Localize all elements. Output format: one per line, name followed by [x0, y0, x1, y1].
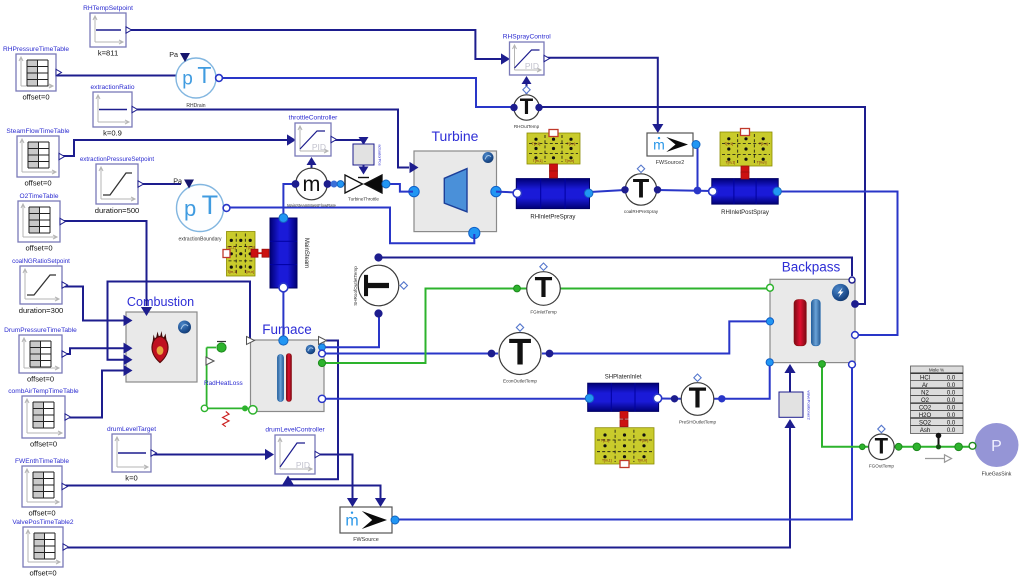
- flow direction arrow: [925, 455, 952, 462]
- svg-text:combAirTempTimeTable: combAirTempTimeTable: [8, 388, 79, 395]
- pipe RHInletPreSpray: [516, 179, 589, 221]
- wire Furnace to SHPlatenInlet: [322, 398, 587, 400]
- svg-text:Mole %: Mole %: [929, 368, 944, 373]
- wire Furnace to SHRoofOutletTemp: [322, 314, 379, 347]
- pressure-temperature boundary extractionBoundary: [173, 177, 230, 243]
- svg-text:0.0: 0.0: [947, 376, 956, 382]
- combustion block Combustion: [126, 295, 197, 382]
- svg-text:T[1,1]: T[1,1]: [601, 439, 610, 443]
- svg-text:T: T: [689, 382, 707, 414]
- svg-text:k=0.9: k=0.9: [103, 129, 122, 138]
- svg-text:T[m,1]: T[m,1]: [726, 161, 736, 165]
- wire RHDrain to RHOutTemp: [217, 78, 514, 107]
- wire coalRHPreSpray sensor to RHInletPostSpray: [657, 190, 712, 191]
- svg-text:MainSteam: MainSteam: [303, 238, 309, 268]
- time table O2TimeTable: [18, 193, 66, 253]
- svg-text:TurbineThrottle: TurbineThrottle: [348, 197, 379, 202]
- red heat link RHInletPreSprayWall: [550, 164, 558, 178]
- pressure-temperature boundary RHDrain: [169, 50, 222, 109]
- svg-text:Furnace: Furnace: [262, 322, 312, 337]
- svg-text:Turbine: Turbine: [432, 128, 479, 144]
- time table combAirTempTimeTable: [8, 388, 79, 449]
- wire SHRoofOutletTemp signal to Backpass top: [379, 258, 853, 277]
- wire combAirTempTimeTable to Combustion: [65, 371, 124, 418]
- svg-text:Pa: Pa: [173, 177, 182, 186]
- temperature sensor FGInletTemp: [527, 263, 561, 314]
- svg-text:Ash: Ash: [920, 428, 930, 434]
- wire MainSteam to MainSteamMassFlowRate: [283, 184, 295, 217]
- svg-text:offset=0: offset=0: [29, 569, 56, 578]
- svg-text:0.0: 0.0: [947, 420, 956, 426]
- svg-text:PreSHOutletTemp: PreSHOutletTemp: [679, 419, 716, 424]
- svg-text:T: T: [520, 94, 534, 119]
- svg-text:DrumPressureTimeTable: DrumPressureTimeTable: [4, 327, 77, 334]
- wire RHPressureTimeTable to RHDrain: [56, 75, 177, 77]
- red heat link RHInletPostSprayWall: [741, 166, 749, 179]
- wire RHTempSetpoint to RHSprayControl: [126, 30, 503, 59]
- sensor FGOutTemp ports: [860, 443, 963, 451]
- svg-text:valvePositioner2: valvePositioner2: [807, 390, 812, 420]
- valve positioner valvePositioner2: [779, 390, 812, 420]
- pipe RHInletPostSpray ports: [709, 187, 782, 195]
- ramp block coalNGRatioSetpoint: [12, 258, 70, 315]
- constant block RHTempSetpoint: [83, 5, 133, 58]
- svg-text:FWSource: FWSource: [353, 537, 378, 543]
- wire RHSprayControl to FWSource2: [544, 58, 658, 126]
- wire throttle actuator to TurbineThrottle: [363, 165, 365, 167]
- wire Furnace to EconOutletTemp: [322, 353, 498, 355]
- PID controller throttleController: [289, 115, 339, 157]
- sensor RHOutTemp ports: [511, 104, 542, 110]
- svg-text:FlueGasSink: FlueGasSink: [982, 472, 1012, 478]
- red heat link MainSteamWall to MainSteam: [251, 249, 269, 257]
- svg-text:RadHeatLoss: RadHeatLoss: [204, 380, 243, 387]
- wire PreSHOutletTemp to Backpass bottom: [714, 363, 770, 399]
- svg-text:SO2: SO2: [919, 420, 932, 426]
- svg-text:m: m: [345, 513, 358, 530]
- svg-text:T[m,n]: T[m,n]: [244, 270, 254, 274]
- svg-text:k=811: k=811: [98, 49, 118, 58]
- svg-text:RHDrain: RHDrain: [186, 103, 205, 109]
- time table SteamFlowTimeTable: [6, 128, 69, 188]
- svg-text:MainSteamMassFlowRate: MainSteamMassFlowRate: [287, 203, 337, 208]
- wire TurbineThrottle to Turbine: [386, 184, 414, 192]
- svg-text:coalRHPreSpray: coalRHPreSpray: [624, 209, 659, 214]
- wire extractionBoundary to Turbine bottom: [224, 208, 474, 244]
- sink FlueGasSink: [969, 423, 1018, 478]
- svg-text:CO2: CO2: [919, 406, 932, 412]
- wire MainSteamMassFlowRate to throttleController: [311, 161, 313, 168]
- svg-text:SHPlatenInlet: SHPlatenInlet: [605, 374, 642, 380]
- heated wall SHPlatenInletWall: [595, 428, 654, 468]
- wire ValvePosTimeTable2 to valvePositioner2: [64, 426, 790, 548]
- svg-text:extractionPressureSetpoint: extractionPressureSetpoint: [80, 156, 155, 163]
- wire FWSource to Backpass economizer: [396, 364, 852, 520]
- svg-text:offset=0: offset=0: [22, 93, 49, 102]
- svg-text:ValvePosTimeTable2: ValvePosTimeTable2: [12, 519, 74, 526]
- wire Furnace output loop to Combustion: [108, 282, 251, 360]
- svg-text:T: T: [633, 174, 650, 204]
- sensor FGInletTemp ports: [514, 285, 521, 292]
- svg-text:drumLevelController: drumLevelController: [265, 427, 325, 434]
- wire RHInletPostSpray to Backpass: [778, 192, 898, 336]
- svg-text:p: p: [182, 69, 193, 90]
- svg-text:T[1,1]: T[1,1]: [532, 142, 541, 146]
- pipe SHPlatenInlet ports: [585, 394, 661, 402]
- red heat link SHPlatenInletWall: [620, 411, 628, 426]
- constant block drumLevelTarget: [107, 426, 157, 483]
- svg-text:p: p: [184, 196, 196, 221]
- svg-text:0.0: 0.0: [947, 383, 956, 389]
- time table ValvePosTimeTable2: [12, 519, 74, 578]
- wire FWEnthTimeTable to FWSource: [62, 486, 381, 500]
- svg-text:HCl: HCl: [920, 376, 930, 382]
- svg-text:Combustion: Combustion: [127, 295, 194, 309]
- svg-text:T: T: [202, 190, 219, 220]
- wire Backpass flue gas to FGOutTemp and FlueGasSink: [822, 364, 974, 447]
- valve TurbineThrottle: [331, 175, 390, 202]
- svg-text:offset=0: offset=0: [24, 179, 51, 188]
- temperature sensor SHRoofOutletTemp: [356, 265, 407, 306]
- temperature sensor EconOutletTemp: [499, 324, 541, 384]
- svg-text:RHOutTemp: RHOutTemp: [514, 124, 540, 129]
- heated wall MainSteamWall: [223, 232, 255, 277]
- wire RHInletPreSpray to coalRHPreSpray sensor: [590, 190, 625, 192]
- time table RHPressureTimeTable: [3, 46, 69, 102]
- svg-text:RHInletPreSpray: RHInletPreSpray: [530, 215, 575, 221]
- svg-text:T[m,n]: T[m,n]: [757, 161, 767, 165]
- svg-text:T[1,n]: T[1,n]: [640, 439, 649, 443]
- throttle actuator block: [353, 144, 383, 166]
- wire EconOutletTemp to Backpass: [542, 321, 769, 353]
- svg-text:extractionBoundary: extractionBoundary: [178, 237, 222, 243]
- svg-text:offset=0: offset=0: [25, 244, 52, 253]
- svg-text:offset=0: offset=0: [28, 509, 55, 518]
- svg-text:T[m,1]: T[m,1]: [227, 270, 237, 274]
- svg-text:T: T: [197, 62, 211, 88]
- mass flow sensor MainSteamMassFlowRate: [287, 168, 337, 208]
- wire O2TimeTable to Combustion top: [61, 221, 147, 306]
- wire DrumPressureTimeTable to Combustion: [63, 348, 124, 354]
- svg-text:RHInletPostSpray: RHInletPostSpray: [721, 210, 769, 216]
- svg-text:O2: O2: [921, 398, 930, 404]
- svg-text:duration=500: duration=500: [95, 206, 140, 215]
- backpass block Backpass: [770, 260, 855, 363]
- heated wall RHInletPostSprayWall: [720, 129, 772, 167]
- svg-text:T[1,n]: T[1,n]: [759, 142, 768, 146]
- svg-text:EconOutletTemp: EconOutletTemp: [503, 379, 537, 384]
- PID controller drumLevelController: [265, 427, 325, 475]
- sensor EconOutletTemp ports: [488, 350, 553, 357]
- svg-text:0.0: 0.0: [947, 398, 956, 404]
- svg-text:RHPressureTimeTable: RHPressureTimeTable: [3, 46, 69, 53]
- svg-text:P: P: [991, 438, 1002, 455]
- svg-text:RHTempSetpoint: RHTempSetpoint: [83, 5, 133, 12]
- PID controller RHSprayControl: [503, 34, 552, 76]
- wire drumLevelTarget to drumLevelController: [152, 454, 267, 456]
- svg-text:PID: PID: [296, 460, 310, 470]
- svg-text:T[1,1]: T[1,1]: [724, 142, 733, 146]
- wire Turbine to RHInletPreSpray: [496, 191, 516, 194]
- svg-text:T[1,1]: T[1,1]: [227, 245, 236, 249]
- svg-text:m: m: [303, 172, 321, 196]
- svg-text:0.0: 0.0: [947, 428, 956, 434]
- temperature sensor FGOutTemp: [869, 425, 895, 468]
- svg-text:T[1,n]: T[1,n]: [567, 142, 576, 146]
- wire drumLevelController to FWSource: [316, 455, 353, 500]
- svg-text:0.0: 0.0: [947, 406, 956, 412]
- heat loss component RadHeatLoss: [201, 342, 248, 427]
- svg-text:0.0: 0.0: [947, 391, 956, 397]
- sensor SHRoofOutletTemp ports: [375, 254, 382, 317]
- mass flow source FWSource: [340, 507, 399, 543]
- svg-text:FGOutTemp: FGOutTemp: [869, 464, 894, 469]
- wire RHOutTemp signal to Backpass right: [539, 107, 865, 304]
- backpass ports: [766, 277, 858, 368]
- wire valvePositioner2 to Backpass: [789, 371, 791, 392]
- ramp block extractionPressureSetpoint: [80, 156, 155, 215]
- sensor coalRHPreSpray ports: [622, 187, 701, 194]
- pipe RHInletPreSpray ports: [513, 189, 593, 197]
- svg-text:N2: N2: [921, 391, 929, 397]
- svg-text:actuatorPos: actuatorPos: [378, 144, 383, 165]
- svg-text:T[m,1]: T[m,1]: [602, 459, 612, 463]
- wire MainSteamMassFlowRate to TurbineThrottle: [327, 183, 345, 185]
- svg-text:0.0: 0.0: [947, 413, 956, 419]
- svg-text:Ar: Ar: [922, 383, 928, 389]
- svg-text:FGInletTemp: FGInletTemp: [530, 309, 557, 314]
- svg-text:T: T: [509, 331, 532, 372]
- wire SHPlatenInlet to PreSHOutletTemp: [659, 398, 681, 400]
- wire extractionRatio to Turbine control input: [132, 110, 409, 168]
- svg-text:offset=0: offset=0: [27, 375, 54, 384]
- pipe SHPlatenInlet: [588, 374, 659, 411]
- wire SteamFlowTimeTable to throttleController: [60, 140, 288, 156]
- temperature sensor RHOutTemp: [514, 86, 540, 129]
- svg-text:throttleController: throttleController: [289, 115, 339, 122]
- svg-text:Pa: Pa: [169, 50, 178, 59]
- svg-text:T[m,n]: T[m,n]: [565, 159, 575, 163]
- wire coalNGRatioSetpoint to Combustion: [62, 287, 124, 321]
- svg-text:SteamFlowTimeTable: SteamFlowTimeTable: [6, 128, 69, 135]
- wire MainSteam to Furnace: [282, 288, 284, 339]
- turbine block Turbine: [409, 128, 501, 239]
- svg-text:k=0: k=0: [125, 474, 137, 483]
- svg-text:duration=300: duration=300: [19, 306, 64, 315]
- temperature sensor PreSHOutletTemp: [679, 374, 716, 424]
- sensor PreSHOutletTemp ports: [671, 396, 725, 402]
- wire Furnace flue gas to FGInletTemp and Backpass: [322, 289, 768, 364]
- time table FWEnthTimeTable: [15, 458, 69, 518]
- wire FWSource2 to RH spray junction: [697, 146, 699, 191]
- svg-text:T: T: [875, 433, 889, 458]
- svg-text:Backpass: Backpass: [782, 260, 841, 275]
- temperature sensor coalRHPreSpray: [624, 165, 659, 214]
- svg-text:extractionRatio: extractionRatio: [91, 84, 135, 91]
- svg-text:FWSource2: FWSource2: [656, 160, 684, 166]
- svg-text:T: T: [356, 275, 397, 297]
- svg-text:T[m,1]: T[m,1]: [533, 159, 543, 163]
- svg-text:coalNGRatioSetpoint: coalNGRatioSetpoint: [12, 258, 70, 265]
- svg-text:drumLevelTarget: drumLevelTarget: [107, 426, 156, 433]
- svg-text:PID: PID: [525, 61, 539, 71]
- svg-text:T: T: [535, 272, 553, 304]
- svg-text:O2TimeTable: O2TimeTable: [20, 193, 59, 200]
- time table DrumPressureTimeTable: [4, 327, 77, 384]
- wire Furnace drum level to drumLevelController: [288, 341, 338, 480]
- svg-text:SHRoofOutletTemp: SHRoofOutletTemp: [353, 266, 358, 306]
- pipe MainSteam: [270, 214, 309, 292]
- wire extractionPressureSetpoint to extractionBoundary: [139, 183, 182, 185]
- svg-text:FWEnthTimeTable: FWEnthTimeTable: [15, 458, 69, 465]
- mass flow source FWSource2: [647, 133, 700, 166]
- mole fraction table: [911, 366, 964, 434]
- svg-text:PID: PID: [312, 142, 326, 152]
- wire throttleController to throttle actuator: [331, 139, 364, 140]
- gas composition pin: [936, 433, 942, 450]
- constant block extractionRatio: [91, 84, 138, 138]
- svg-text:T[1,n]: T[1,n]: [246, 245, 255, 249]
- furnace block Furnace: [251, 322, 325, 412]
- heated wall RHInletPreSprayWall: [527, 130, 580, 165]
- wire RHOutTemp to RHSprayControl: [526, 80, 528, 94]
- svg-text:H2O: H2O: [919, 413, 932, 419]
- svg-text:T[m,n]: T[m,n]: [637, 459, 647, 463]
- pipe RHInletPostSpray: [712, 179, 778, 217]
- svg-text:offset=0: offset=0: [30, 440, 57, 449]
- svg-text:RHSprayControl: RHSprayControl: [503, 34, 552, 41]
- furnace ports: [247, 336, 327, 414]
